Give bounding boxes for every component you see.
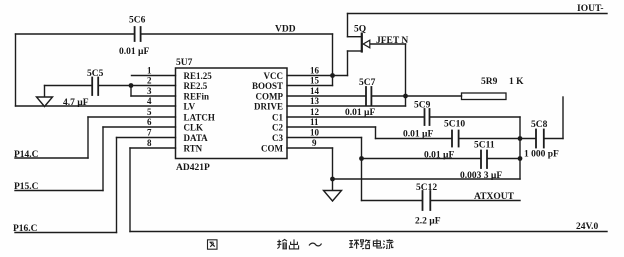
wire RTN vertical down bbox=[129, 148, 131, 232]
svg-text:5C11: 5C11 bbox=[474, 141, 495, 151]
svg-text:VDD: VDD bbox=[275, 25, 296, 35]
caption glyph chu (output word 2) bbox=[289, 239, 298, 249]
svg-text:0.01 µF: 0.01 µF bbox=[119, 47, 149, 57]
capacitor 5C6 bbox=[129, 16, 146, 42]
wire 5C10 to junction bbox=[460, 138, 520, 140]
svg-text:13: 13 bbox=[310, 96, 320, 106]
junction node C1/C2/5C8 bbox=[518, 136, 523, 141]
transistor 5Q JFET N bbox=[348, 14, 409, 52]
wire VDD left segment bbox=[16, 33, 134, 35]
svg-text:5Q: 5Q bbox=[354, 25, 366, 35]
wire pin16 VCC bbox=[287, 75, 333, 77]
svg-text:COMP: COMP bbox=[256, 92, 284, 102]
svg-text:LATCH: LATCH bbox=[184, 113, 215, 123]
ground (left) bbox=[37, 86, 53, 107]
capacitor 5C12 bbox=[416, 183, 437, 210]
capacitor 5C5 bbox=[87, 69, 104, 95]
wire VDD right segment bbox=[142, 33, 333, 35]
wire pin14 COMP to 5C7 bbox=[287, 95, 365, 97]
capacitor 5C10 bbox=[444, 120, 465, 147]
wire pin3 REFin bbox=[131, 95, 176, 97]
svg-text:1: 1 bbox=[147, 66, 152, 76]
wire P14.C vertical to pin5 bbox=[87, 117, 89, 158]
svg-text:15: 15 bbox=[310, 76, 320, 86]
svg-text:5C10: 5C10 bbox=[444, 120, 465, 130]
wire pin5 LATCH bbox=[88, 116, 176, 118]
wire pin6 CLK bbox=[103, 126, 176, 128]
wire P16.C vertical to pin7 bbox=[116, 138, 118, 233]
svg-text:5C8: 5C8 bbox=[531, 120, 548, 130]
junction node on pin2 (REFin tie) bbox=[129, 83, 134, 88]
svg-text:4.7 µF: 4.7 µF bbox=[63, 98, 89, 108]
svg-text:RE2.5: RE2.5 bbox=[184, 81, 208, 91]
svg-text:1 K: 1 K bbox=[509, 77, 524, 87]
svg-text:DRIVE: DRIVE bbox=[254, 102, 283, 112]
wire 5C8 to 5R9 vertical bbox=[545, 138, 563, 140]
svg-text:4: 4 bbox=[147, 96, 152, 106]
svg-text:REFin: REFin bbox=[184, 92, 210, 102]
svg-text:5C7: 5C7 bbox=[359, 78, 376, 88]
wire pin10 C3 bbox=[287, 137, 362, 139]
svg-text:9: 9 bbox=[312, 138, 317, 148]
wire junction down to pin3 bbox=[130, 86, 132, 97]
wire pin11 C2 bbox=[287, 126, 376, 128]
wire P14.C bbox=[15, 157, 88, 159]
wire C2 row to 5C10 bbox=[376, 138, 452, 140]
caption glyph huan (loop word 1) bbox=[349, 240, 359, 249]
capacitor 5C11 bbox=[474, 141, 495, 169]
svg-text:5C9: 5C9 bbox=[414, 101, 431, 111]
caption glyph tu (figure) bbox=[208, 240, 218, 249]
wire C3 row to 5C11 bbox=[362, 158, 481, 160]
svg-text:2.2 µF: 2.2 µF bbox=[415, 217, 441, 227]
wire P15.C vertical to pin6 bbox=[102, 127, 104, 191]
wire junction to 5C8 bbox=[520, 138, 535, 140]
caption tilde bbox=[309, 243, 322, 246]
wire C3 node down to 5C12 row bbox=[362, 200, 422, 202]
svg-text:7: 7 bbox=[147, 128, 152, 138]
wire RTN to 24V.0 bbox=[130, 231, 607, 233]
caption glyph dian (current word 1) bbox=[373, 239, 381, 248]
svg-text:5: 5 bbox=[147, 107, 152, 117]
wire pin7 DATA bbox=[117, 137, 176, 139]
svg-text:10: 10 bbox=[310, 128, 320, 138]
svg-text:BOOST: BOOST bbox=[252, 81, 283, 91]
svg-text:C1: C1 bbox=[272, 113, 283, 123]
wire 5C7 to 5R9 bbox=[372, 95, 461, 97]
svg-text:CLK: CLK bbox=[184, 123, 204, 133]
resistor 5R9 bbox=[462, 77, 525, 100]
svg-text:14: 14 bbox=[310, 86, 320, 96]
wire pin11 vertical jog bbox=[375, 127, 377, 139]
wire pin2 RE2.5 to 5C5 bbox=[45, 85, 92, 87]
wire pin12 C1 to 5C9 bbox=[287, 116, 424, 118]
svg-text:RE1.25: RE1.25 bbox=[184, 71, 213, 81]
svg-text:AD421P: AD421P bbox=[176, 163, 210, 173]
wire VCC node to JFET source bbox=[333, 75, 348, 77]
wire VDD vertical down to pin15 bbox=[332, 34, 334, 86]
svg-text:1 000 pF: 1 000 pF bbox=[524, 150, 559, 160]
wire P15.C bbox=[15, 190, 103, 192]
svg-text:24V.0: 24V.0 bbox=[576, 222, 599, 232]
svg-text:2: 2 bbox=[147, 76, 152, 86]
caption glyph liu (current word 2) bbox=[383, 239, 393, 248]
wire pin13 DRIVE bbox=[287, 105, 406, 107]
wire pin10 vertical down bbox=[361, 138, 363, 201]
svg-text:16: 16 bbox=[310, 66, 320, 76]
svg-text:11: 11 bbox=[310, 117, 319, 127]
wire 5C9 to right vertical bbox=[431, 116, 521, 118]
svg-text:6: 6 bbox=[147, 117, 152, 127]
junction node C3/5C11/5C12 bbox=[359, 156, 364, 161]
wire pin4 LV to left vertical bbox=[16, 105, 176, 107]
svg-text:5C12: 5C12 bbox=[416, 183, 437, 193]
wire pin15 BOOST bbox=[287, 85, 333, 87]
svg-text:5C5: 5C5 bbox=[87, 69, 104, 79]
svg-text:ATXOUT: ATXOUT bbox=[474, 192, 515, 202]
svg-text:COM: COM bbox=[261, 144, 284, 154]
svg-text:8: 8 bbox=[147, 138, 152, 148]
svg-text:DATA: DATA bbox=[184, 133, 209, 143]
capacitor 5C9 bbox=[414, 101, 431, 126]
wire pin1 stub bbox=[132, 75, 176, 77]
net IOUT- wire bbox=[348, 13, 608, 15]
svg-text:VCC: VCC bbox=[264, 71, 284, 81]
junction node VCC/VDD/boost bbox=[330, 73, 335, 78]
capacitor 5C7 bbox=[359, 78, 376, 105]
svg-text:5U7: 5U7 bbox=[176, 58, 193, 68]
wire pin8 RTN bbox=[130, 147, 176, 149]
svg-text:JFET N: JFET N bbox=[376, 36, 408, 46]
wire ground rail bbox=[333, 178, 521, 180]
wire P16.C bbox=[15, 232, 117, 234]
wire 5R9 right vertical down to 5C8 bbox=[562, 97, 564, 139]
svg-text:C3: C3 bbox=[272, 133, 283, 143]
ground (right) bbox=[324, 191, 342, 202]
wire 5C11 to junction bbox=[488, 158, 520, 160]
svg-text:LV: LV bbox=[184, 102, 196, 112]
junction node COM/ground bbox=[330, 177, 335, 182]
wire JFET source vertical bbox=[347, 51, 349, 76]
svg-text:IOUT-: IOUT- bbox=[577, 4, 604, 14]
svg-text:C2: C2 bbox=[272, 123, 283, 133]
svg-text:12: 12 bbox=[310, 107, 320, 117]
svg-text:5C6: 5C6 bbox=[129, 16, 146, 26]
junction node gate/COMP bbox=[403, 94, 408, 99]
wire left vertical (5C6 to LV) bbox=[15, 34, 17, 106]
wire pin9 COM bbox=[287, 147, 333, 149]
caption glyph lu (loop word 2) bbox=[360, 239, 370, 249]
svg-text:5R9: 5R9 bbox=[481, 77, 498, 87]
wire JFET gate vertical to DRIVE bbox=[405, 44, 407, 106]
caption glyph shu (output word 1) bbox=[277, 239, 287, 248]
svg-text:3: 3 bbox=[147, 86, 152, 96]
junction node C3 chain bbox=[518, 156, 523, 161]
IC 5U7 AD421P bbox=[176, 58, 288, 173]
wire COM vertical down bbox=[332, 148, 334, 191]
svg-text:RTN: RTN bbox=[184, 144, 203, 154]
wire 5C12 to ATXOUT bbox=[431, 200, 520, 202]
capacitor 5C8 bbox=[531, 120, 548, 148]
wire 5C5 to pin2 bbox=[99, 85, 175, 87]
wire right common vertical bbox=[519, 117, 521, 179]
